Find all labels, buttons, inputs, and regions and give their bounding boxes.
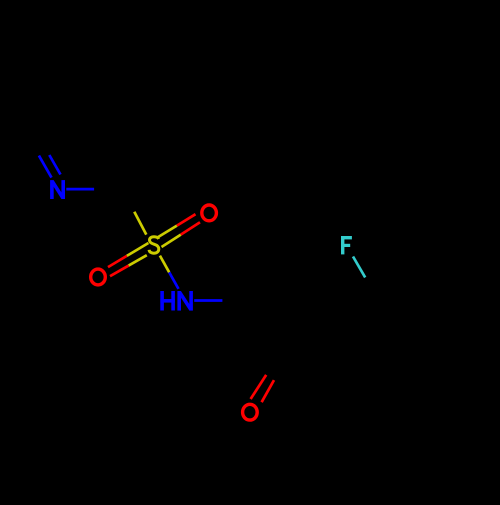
wire: S=O double bond to lower-left O, line D yellow half [129, 255, 147, 265]
node O: carbonyl oxygen label O [243, 404, 258, 420]
wire: S=O double bond to upper-right O, line B red half [181, 222, 200, 234]
node N1: pyridine nitrogen label N [52, 180, 63, 199]
wire: S=O double bond to lower-left O, line C yellow half [127, 243, 149, 256]
node N2: sulfonamide HN label [160, 291, 191, 311]
wire: S=O double bond to lower-left O, line C red half [108, 256, 127, 267]
wire: pyridine N1-C2 single bond blue half [66, 188, 94, 191]
node F: fluorine label F [341, 236, 352, 254]
wire: S=O double bond to upper-right O, line A red half [177, 214, 196, 225]
wire: pyridine C6=N1 double bond, main line blue half [39, 156, 52, 178]
node O: sulfonyl oxygen label O (upper right) [202, 205, 217, 221]
wire: S-N2 bond yellow half [160, 256, 169, 273]
wire: N2-C7 single bond blue half [194, 299, 222, 302]
wire: S=O double bond to upper-right O, line A yellow half [158, 226, 177, 237]
wire: C8=O carbonyl double bond, line F red half [262, 380, 274, 402]
wire: C2-S bond yellow half [134, 212, 146, 235]
wire: F-C2' bond teal half [353, 257, 365, 278]
wire: C8=O carbonyl double bond, line E red half [251, 375, 267, 399]
wire: S-N2 bond blue half [169, 272, 178, 289]
wire: pyridine C6=N1 double bond, inner line blue half [49, 155, 60, 175]
wire: S=O double bond to lower-left O, line D red half [110, 266, 129, 277]
node S: sulfur label S [149, 237, 159, 254]
wire: S=O double bond to upper-right O, line B yellow half [162, 235, 181, 247]
node O: sulfonyl oxygen label O (lower left) [91, 269, 106, 285]
